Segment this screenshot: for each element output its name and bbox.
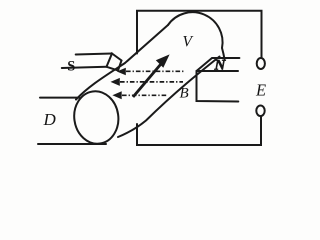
svg-text:S: S: [67, 59, 75, 75]
svg-text:N: N: [214, 58, 227, 74]
svg-text:E: E: [255, 80, 266, 99]
svg-text:B: B: [180, 86, 189, 102]
svg-text:D: D: [43, 110, 57, 129]
svg-text:V: V: [183, 33, 194, 50]
